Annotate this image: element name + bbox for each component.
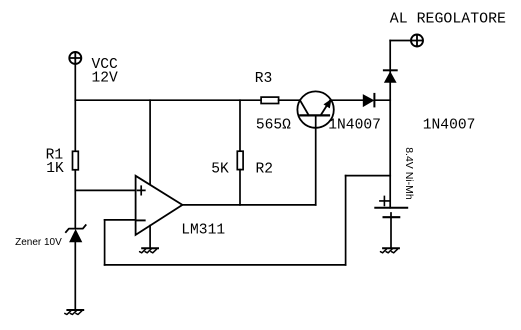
svg-text:R2: R2 [256, 162, 274, 178]
diode D2 [384, 70, 397, 82]
terminal AL REGOLATORE [411, 35, 423, 47]
wire R3 to transistor [279, 99, 300, 101]
wire feedback vertical right [345, 176, 347, 265]
wire rail to R1 [74, 100, 76, 151]
svg-text:565Ω: 565Ω [256, 117, 291, 133]
terminal VCC [69, 52, 81, 64]
wire R2 to output line [239, 170, 241, 205]
resistor R3 [261, 97, 279, 103]
transistor Q1 [297, 91, 333, 127]
wire op-amp ground stem [149, 226, 151, 248]
wire zener to ground [74, 242, 76, 310]
svg-text:LM311: LM311 [181, 222, 225, 238]
ground G2 [381, 248, 399, 253]
wire transistor to diode D1 [331, 99, 363, 101]
wire top rail [75, 99, 261, 101]
label R1 1K [46, 148, 64, 178]
zener diode DZ [66, 225, 86, 242]
ground G3 [140, 248, 158, 253]
op-amp U1 [136, 176, 183, 235]
resistor R2 [237, 151, 243, 169]
wire inverting input [105, 219, 136, 221]
svg-text:1K: 1K [46, 161, 64, 177]
wire op-amp power pin [149, 100, 151, 185]
svg-text:AL REGOLATORE: AL REGOLATORE [390, 12, 506, 28]
wire right vertical [389, 41, 391, 208]
wire D1 to right vertical [374, 99, 390, 101]
resistor R1 [73, 151, 79, 170]
svg-text:5K: 5K [211, 162, 229, 178]
svg-text:Zener 10V: Zener 10V [15, 237, 62, 248]
wire VCC terminal to rail [74, 64, 76, 100]
wire op-amp output [182, 204, 315, 206]
ground G1 [65, 310, 83, 315]
svg-text:R3: R3 [255, 71, 273, 87]
svg-text:1N4007: 1N4007 [328, 117, 381, 133]
label VCC 12V [92, 57, 119, 87]
wire rail to R2 [239, 100, 241, 151]
wire noninverting input [75, 189, 135, 191]
wire feedback bottom [105, 264, 346, 266]
wire transistor base lead [315, 115, 317, 204]
svg-text:1N4007: 1N4007 [423, 117, 476, 133]
svg-text:8.4V Ni-Mh: 8.4V Ni-Mh [403, 147, 415, 200]
wire to output terminal [390, 40, 411, 42]
wire R1 to zener [74, 170, 76, 229]
wire battery node horizontal [346, 175, 391, 177]
wire feedback vertical left [104, 220, 106, 265]
battery BT1 [375, 196, 407, 217]
diode D1 [363, 94, 375, 107]
svg-text:12V: 12V [92, 71, 119, 87]
wire battery to ground [390, 213, 392, 248]
